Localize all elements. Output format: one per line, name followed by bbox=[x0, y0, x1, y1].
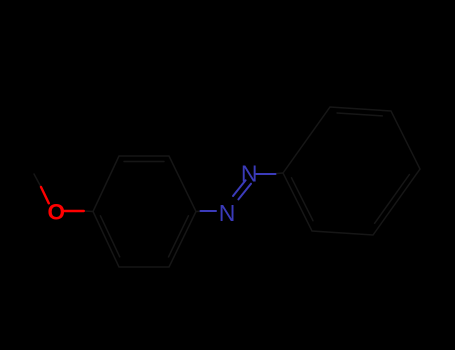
O-ring bond carbon half bbox=[84, 210, 93, 213]
ring1-N bond carbon half bbox=[196, 210, 202, 212]
ring1-N bond nitrogen half (blue) bbox=[201, 210, 217, 212]
methyl C-O bond carbon half bbox=[34, 174, 41, 187]
ring 1 aromatic double bond inner lines bbox=[100, 162, 188, 257]
svg-text:N: N bbox=[241, 161, 258, 187]
N-ring2 bond nitrogen half (blue) bbox=[256, 173, 275, 175]
methyl C-O bond oxygen half (red) bbox=[41, 187, 49, 203]
benzene ring 1 (methoxyphenyl) bbox=[93, 156, 196, 267]
benzene ring 2 (phenyl, tilted) bbox=[283, 107, 420, 235]
azo N=N double bond line 2 bbox=[238, 184, 251, 200]
azo N=N double bond line 1 bbox=[233, 180, 246, 196]
svg-text:O: O bbox=[47, 200, 65, 225]
N-ring2 bond carbon half bbox=[276, 172, 284, 175]
O-ring bond oxygen half (red) bbox=[64, 210, 84, 212]
ring 2 aromatic double bond inner lines bbox=[292, 113, 410, 223]
svg-text:N: N bbox=[219, 200, 236, 226]
